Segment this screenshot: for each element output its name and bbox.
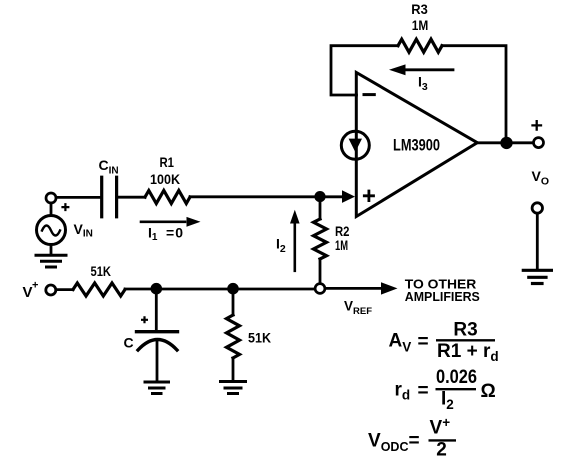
svg-text:R3: R3 [453, 319, 477, 340]
resistor R1 [145, 191, 190, 204]
junction node at R2 top [314, 191, 325, 202]
output terminal Vo (open circle) [534, 138, 544, 148]
wire VREF to other amplifiers [325, 287, 382, 290]
wire V+ to 51K [56, 288, 73, 291]
ground below C [145, 382, 169, 394]
capacitor CIN [102, 177, 117, 217]
current source inside U1 [341, 131, 369, 159]
arrowhead to other amplifiers [381, 282, 398, 294]
current arrow I3 [389, 64, 453, 75]
wire feedback top-left and drop to inverting input [331, 46, 398, 95]
node VREF (open circle) [315, 284, 325, 294]
wire terminal to ground [536, 213, 539, 268]
fraction bar of rd formula [436, 388, 477, 390]
wire input terminal to CIN [56, 196, 100, 199]
fraction bar of Av formula [436, 339, 495, 341]
formula Vodc = V+ / 2 [368, 415, 450, 456]
ground below output terminal [523, 270, 551, 283]
svg-text:2: 2 [436, 439, 447, 456]
svg-text:Ω: Ω [481, 381, 496, 402]
terminal V+ (open circle) [46, 285, 56, 295]
svg-text:R3: R3 [411, 1, 428, 17]
wire feedback top-right and drop to output node [442, 46, 506, 143]
resistor R3 [398, 39, 442, 52]
svg-text:100K: 100K [150, 171, 180, 187]
svg-text:C: C [124, 335, 134, 351]
op-amp plus pin mark [364, 191, 373, 201]
svg-text:0.026: 0.026 [436, 367, 477, 388]
resistor 51K horizontal [73, 283, 125, 296]
formula Av = R3 / (R1 + rd) [389, 319, 499, 364]
arrowhead into plus input [342, 190, 355, 203]
source VIN [37, 203, 66, 254]
svg-text:1M: 1M [335, 237, 348, 253]
plus mark at output terminal [533, 121, 542, 129]
svg-text:1M: 1M [412, 17, 429, 33]
resistor 51K shunt vertical [227, 293, 240, 380]
svg-text:V: V [23, 284, 33, 301]
svg-text:=: = [409, 430, 420, 451]
wire output node [477, 141, 533, 144]
svg-text:=: = [418, 331, 429, 352]
svg-text:AMPLIFIERS: AMPLIFIERS [405, 289, 480, 304]
junction node at 51K shunt [227, 283, 239, 295]
current arrow I2 [290, 210, 300, 271]
lower output reference terminal (open circle) [532, 203, 542, 213]
junction node at output [500, 137, 512, 149]
resistor R2 vertical [314, 197, 327, 284]
svg-text:+: + [32, 280, 38, 292]
current arrow I1 [141, 217, 201, 227]
svg-text:R1: R1 [160, 154, 175, 170]
wire R1 to noninverting input [190, 195, 342, 198]
capacitor C (polarized) [137, 293, 178, 381]
ground below VIN [36, 255, 66, 267]
svg-text:LM3900: LM3900 [393, 136, 440, 155]
fraction bar of Vodc formula [429, 439, 457, 441]
wire 51K to VREF node [125, 288, 315, 291]
formula rd = 0.026 / I2 ohm [395, 367, 496, 412]
label plus at capacitor C [141, 316, 148, 323]
label plus at VIN [61, 203, 69, 211]
op-amp U1 LM3900 triangle [356, 73, 477, 217]
input terminal (open circle) [46, 193, 56, 203]
op-amp minus pin mark [364, 93, 374, 96]
wire CIN to R1 [118, 196, 145, 199]
svg-text:=: = [418, 381, 429, 402]
svg-text:51K: 51K [91, 263, 112, 279]
svg-text:R1 + rd: R1 + rd [437, 341, 499, 364]
junction node at capacitor C [151, 283, 163, 295]
ground below 51K shunt [221, 382, 246, 394]
svg-text:51K: 51K [248, 330, 271, 346]
